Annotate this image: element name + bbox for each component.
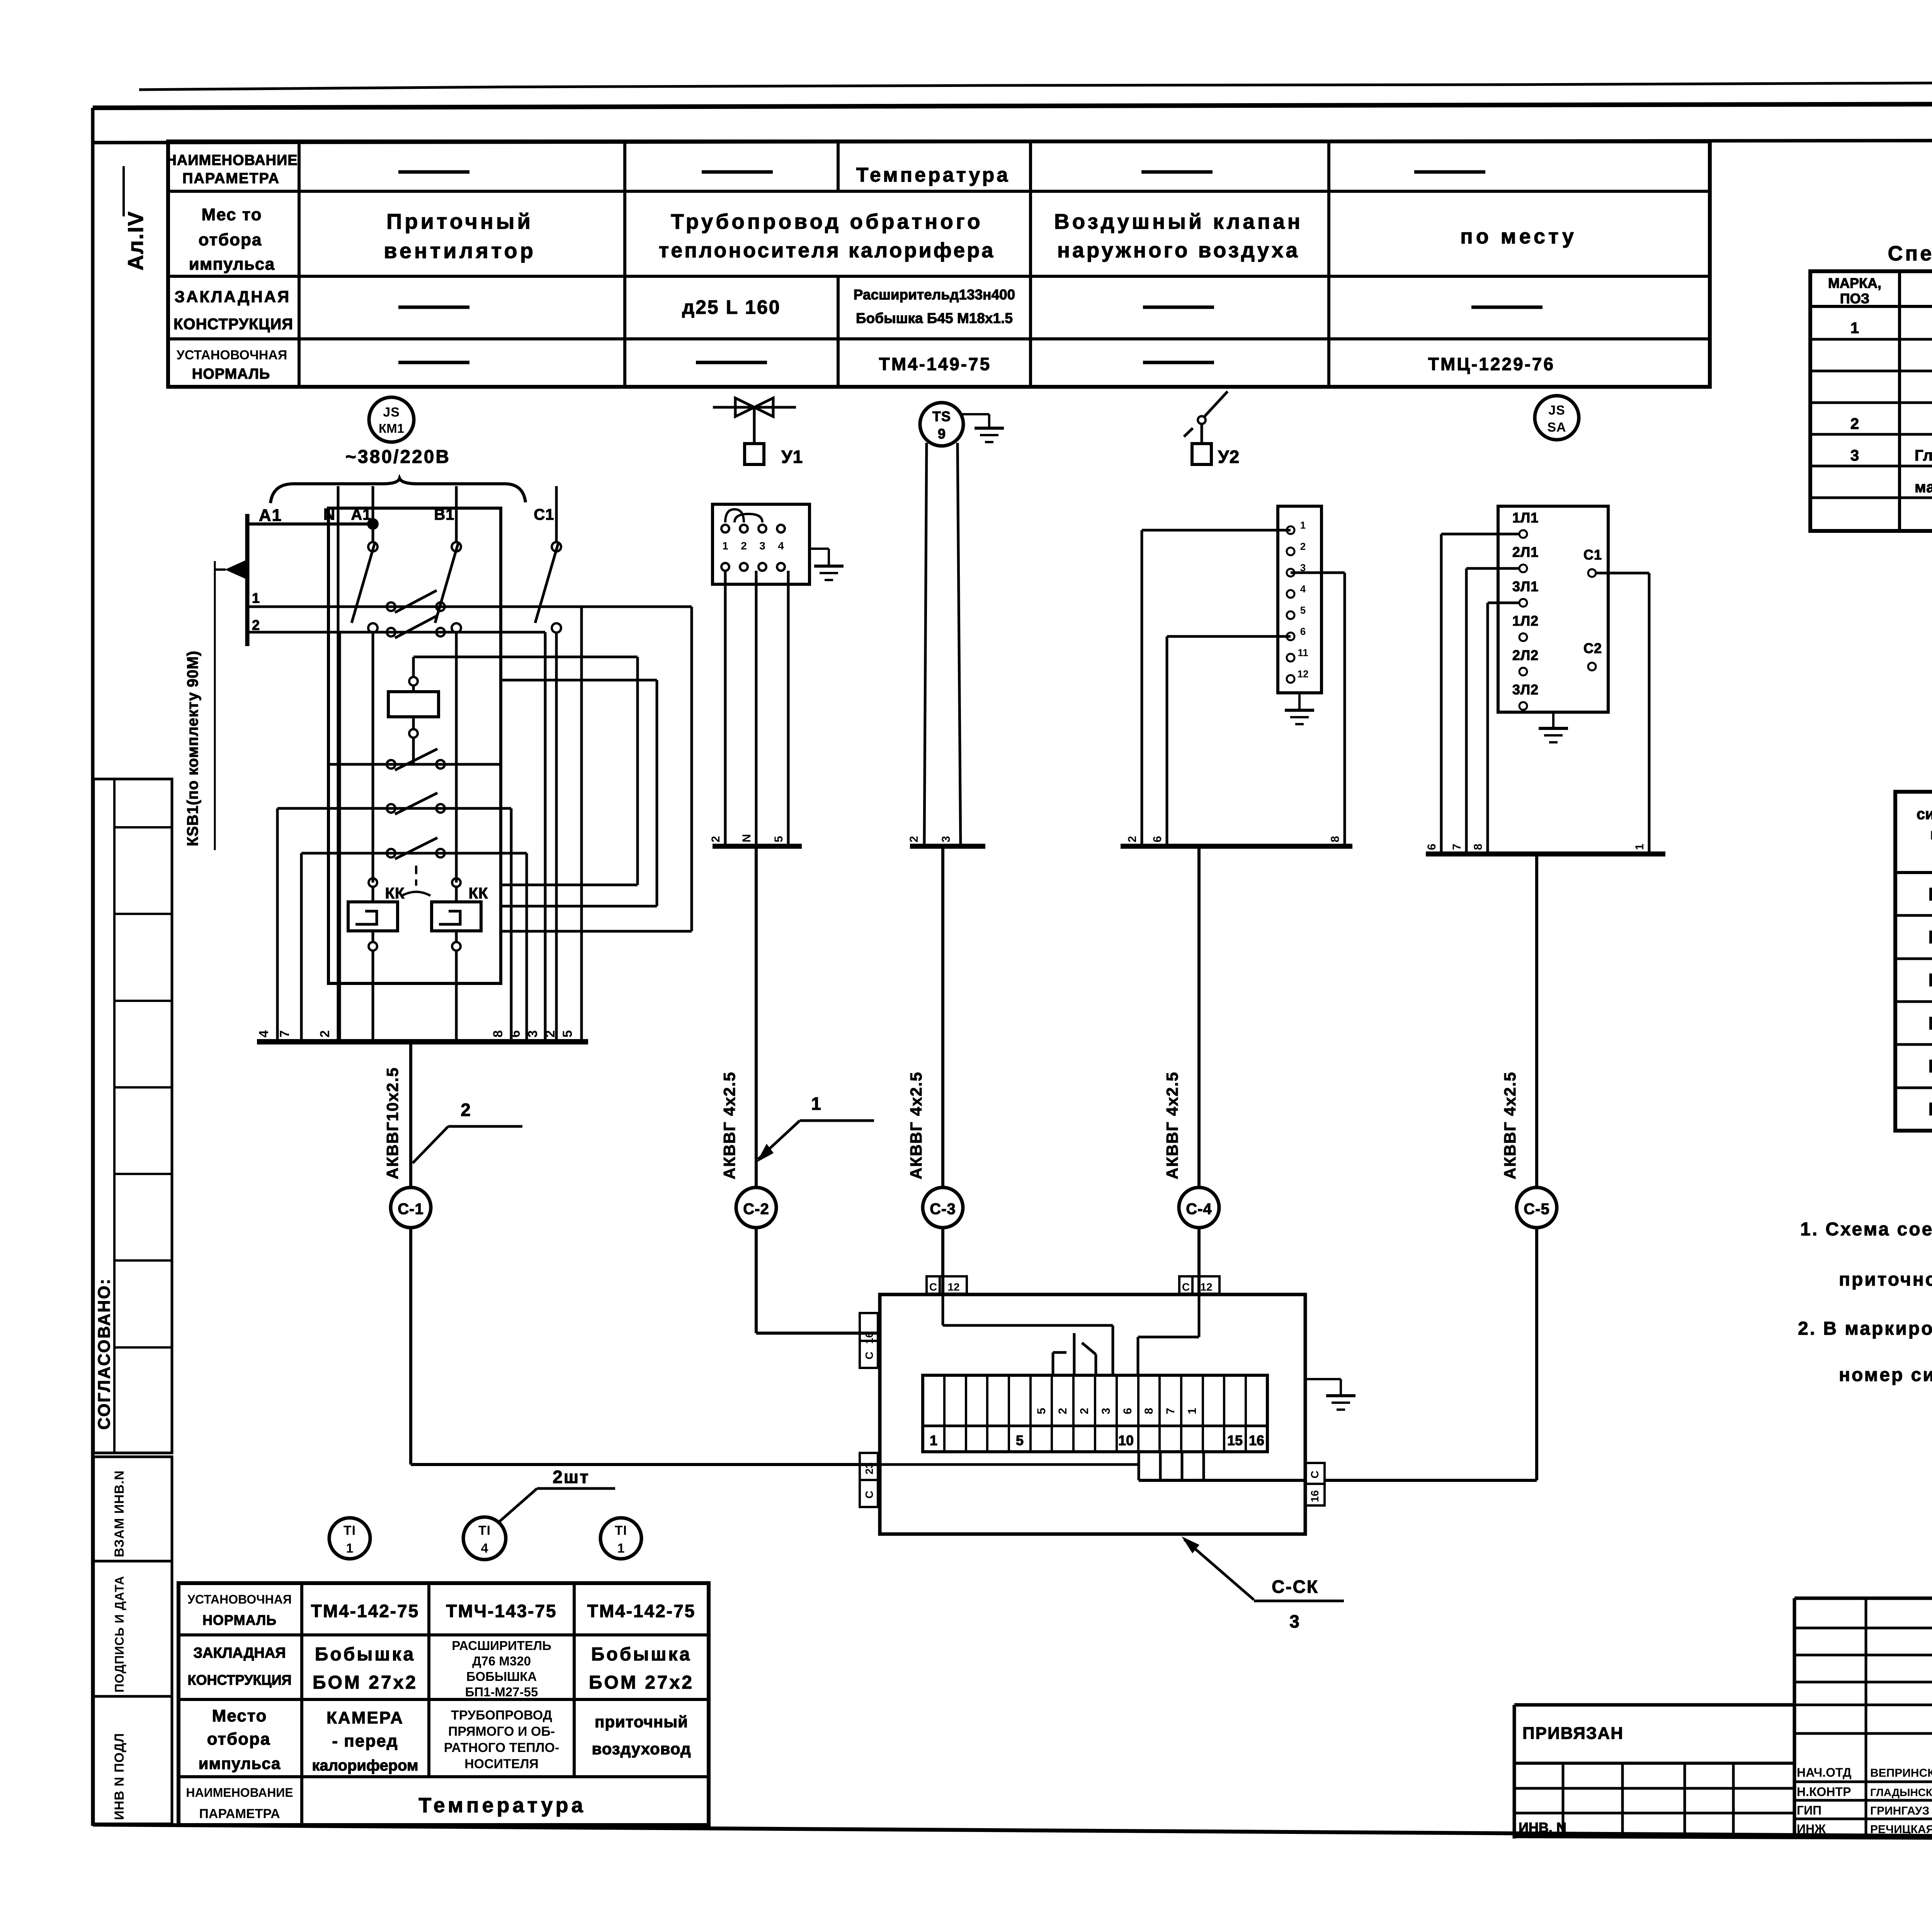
svg-text:ТМ4-142-75: ТМ4-142-75: [311, 1601, 420, 1621]
svg-text:11: 11: [1298, 647, 1308, 658]
device circle KM1: [369, 397, 414, 442]
cable label AKVVG 4x2.5 branch2: [720, 1072, 738, 1179]
svg-text:8: 8: [1329, 836, 1342, 842]
svg-text:1: 1: [930, 1432, 937, 1448]
svg-text:С: С: [863, 1352, 875, 1359]
starter enclosure box: [328, 508, 501, 983]
svg-text:АКВВГ 4х2.5: АКВВГ 4х2.5: [720, 1072, 738, 1179]
svg-text:5: 5: [1035, 1408, 1048, 1414]
svg-text:А1: А1: [259, 506, 282, 525]
phase C1 wire and main contact: [534, 486, 561, 1042]
svg-text:2: 2: [1126, 836, 1139, 842]
svg-text:номер системы согласно табл: номер системы согласно табл 2: [1839, 1365, 1932, 1385]
svg-text:КК: КК: [469, 885, 488, 902]
svg-text:отбора: отбора: [207, 1730, 271, 1749]
svg-text:отбора: отбора: [199, 230, 262, 249]
svg-text:систе-: систе-: [1917, 806, 1932, 823]
svg-text:2: 2: [908, 836, 920, 842]
cable circle C-3: [923, 846, 963, 1228]
svg-text:НАЧ.ОТД: НАЧ.ОТД: [1797, 1766, 1852, 1779]
svg-text:А1: А1: [351, 506, 371, 523]
wire N: [323, 486, 338, 1042]
svg-text:НАИМЕНОВАНИЕ: НАИМЕНОВАНИЕ: [186, 1786, 293, 1800]
svg-text:ТI: ТI: [344, 1523, 356, 1538]
right tag C16: [1305, 1463, 1325, 1505]
svg-text:3: 3: [759, 540, 765, 552]
svg-text:КМ1: КМ1: [379, 421, 404, 435]
svg-text:12: 12: [1200, 1281, 1212, 1293]
svg-text:ИНЖ: ИНЖ: [1797, 1822, 1826, 1836]
svg-text:ТI: ТI: [478, 1523, 491, 1538]
svg-text:4: 4: [1300, 583, 1306, 595]
svg-text:7: 7: [1164, 1408, 1177, 1414]
svg-text:23: 23: [863, 1462, 875, 1474]
svg-text:8: 8: [1472, 844, 1485, 850]
auxiliary contact row a: [328, 749, 501, 770]
ground of connection box: [1305, 1379, 1355, 1410]
svg-text:ТМЧ-143-75: ТМЧ-143-75: [446, 1601, 557, 1621]
svg-text:16: 16: [863, 1332, 875, 1344]
svg-text:С: С: [1182, 1281, 1190, 1293]
svg-text:РАСШИРИТЕЛЬ: РАСШИРИТЕЛЬ: [452, 1638, 551, 1653]
svg-text:Расширительд133н400: Расширительд133н400: [854, 287, 1015, 303]
phase B1 wire and main contact: [434, 486, 461, 883]
cable label AKVVG 4x2.5 branch5: [1501, 1072, 1519, 1179]
svg-text:2: 2: [252, 617, 260, 633]
svg-text:6: 6: [1425, 844, 1438, 850]
svg-text:В1: В1: [434, 506, 454, 523]
svg-text:БОМ 27х2: БОМ 27х2: [313, 1672, 418, 1693]
svg-text:5: 5: [772, 836, 785, 842]
svg-text:НАИМЕНОВАНИЕ: НАИМЕНОВАНИЕ: [166, 152, 298, 168]
svg-text:ВЗАМ ИНВ.N: ВЗАМ ИНВ.N: [112, 1470, 127, 1557]
svg-text:ГРИНГАУЗ: ГРИНГАУЗ: [1870, 1805, 1929, 1817]
svg-text:2: 2: [1850, 415, 1859, 432]
left tag C16: [860, 1313, 878, 1368]
svg-text:1Л2: 1Л2: [1512, 613, 1539, 629]
svg-text:АКВВГ 4х2.5: АКВВГ 4х2.5: [1501, 1072, 1519, 1179]
svg-text:5: 5: [560, 1030, 575, 1038]
svg-text:2: 2: [1078, 1408, 1091, 1414]
svg-text:С-5: С-5: [1524, 1201, 1549, 1218]
wires Y2 to bus: [1121, 530, 1352, 846]
svg-text:Спецификация элементов систе: Спецификация элементов систем П3-П8: [1888, 242, 1932, 265]
svg-text:3: 3: [940, 836, 952, 842]
bus of branch 1: [257, 1039, 588, 1044]
wire C-3 to box: [941, 1228, 944, 1294]
svg-text:3Л2: 3Л2: [1512, 682, 1539, 697]
wire C-1 to box: [411, 1228, 880, 1465]
svg-text:ТРУБОПРОВОД: ТРУБОПРОВОД: [451, 1708, 552, 1723]
svg-text:8: 8: [491, 1030, 505, 1038]
svg-text:1: 1: [252, 590, 260, 606]
svg-text:ГИП: ГИП: [1797, 1803, 1821, 1817]
label KSB1: [184, 561, 215, 850]
svg-text:N: N: [740, 834, 753, 842]
scan edge artifact line: [139, 81, 1932, 90]
wire C-2 to box: [756, 1228, 880, 1333]
svg-text:1: 1: [1633, 844, 1646, 850]
svg-text:2: 2: [461, 1100, 471, 1120]
svg-text:2шт: 2шт: [553, 1467, 589, 1487]
connection box C-CK: [880, 1294, 1305, 1534]
svg-text:воздуховод: воздуховод: [592, 1740, 691, 1758]
svg-text:1: 1: [1300, 519, 1306, 531]
svg-text:1: 1: [1850, 320, 1859, 337]
svg-text:Ал.IV: Ал.IV: [123, 211, 148, 270]
svg-text:5: 5: [1300, 604, 1306, 616]
svg-text:3Л1: 3Л1: [1512, 578, 1539, 594]
svg-text:КSВ1(по комплекту 90М): КSВ1(по комплекту 90М): [184, 650, 201, 846]
svg-text:8: 8: [1143, 1408, 1155, 1414]
sensor capsule wires: [908, 443, 985, 846]
svg-text:1Л1: 1Л1: [1512, 510, 1539, 526]
sheet label Al.IV: [123, 166, 148, 270]
svg-text:УСТАНОВОЧНАЯ: УСТАНОВОЧНАЯ: [177, 348, 287, 362]
svg-text:1: 1: [722, 540, 728, 552]
svg-text:Трубопровод обратного: Трубопровод обратного: [671, 209, 983, 233]
svg-text:6: 6: [1121, 1408, 1134, 1414]
thermal element KK left: [348, 878, 405, 1042]
terminal numbers above bus 1: [257, 1030, 575, 1038]
auxiliary contact row c: [301, 838, 527, 1042]
table 2 cable lengths: [1895, 724, 1932, 1131]
ground of Y1: [810, 549, 844, 580]
svg-text:У2: У2: [1218, 447, 1240, 467]
svg-text:КОНСТРУКЦИЯ: КОНСТРУКЦИЯ: [187, 1672, 291, 1688]
cable circle C-5: [1517, 854, 1557, 1228]
instrument circle TI-1 a: [329, 1518, 370, 1559]
svg-text:ТМЦ-1229-76: ТМЦ-1229-76: [1428, 354, 1555, 374]
top parameter table: [166, 141, 1710, 387]
svg-text:РАТНОГО ТЕПЛО-: РАТНОГО ТЕПЛО-: [444, 1740, 560, 1755]
svg-text:Приточный: Приточный: [386, 209, 533, 233]
svg-text:НОСИТЕЛЯ: НОСИТЕЛЯ: [464, 1757, 539, 1771]
svg-text:- перед: - перед: [332, 1732, 398, 1750]
cable circle C-2: [736, 846, 776, 1228]
leader 1: [757, 1094, 874, 1162]
lever symbol Y2: [1184, 391, 1240, 467]
internal wires of connection box: [880, 1294, 1305, 1480]
svg-text:2: 2: [543, 1030, 558, 1038]
svg-text:ТI: ТI: [615, 1523, 627, 1538]
thermal element KK right: [432, 878, 488, 1042]
wires Y1 to bus: [709, 571, 802, 846]
notes text: [1798, 1219, 1932, 1385]
svg-text:16: 16: [1249, 1432, 1264, 1448]
wires SA to bus: [1425, 534, 1665, 854]
svg-text:д25 L 160: д25 L 160: [682, 296, 781, 318]
svg-text:П5: П5: [1929, 970, 1932, 990]
device circle SA: [1535, 396, 1579, 440]
svg-text:7: 7: [1451, 844, 1463, 850]
top tag C12 left: [927, 1276, 967, 1294]
leader 2sht: [499, 1467, 615, 1522]
svg-text:5: 5: [1016, 1432, 1024, 1448]
limit switch box Y2: [1278, 506, 1321, 693]
svg-text:ЗАКЛАДНАЯ: ЗАКЛАДНАЯ: [175, 287, 291, 306]
svg-text:6: 6: [1151, 836, 1164, 842]
svg-text:Бобышка Б45 М18х1.5: Бобышка Б45 М18х1.5: [856, 310, 1013, 326]
svg-text:3: 3: [1850, 447, 1859, 464]
svg-text:калорифером: калорифером: [312, 1757, 418, 1774]
cable circle C-4: [1179, 846, 1219, 1228]
svg-text:2: 2: [1056, 1408, 1069, 1414]
svg-text:по месту: по месту: [1460, 225, 1577, 248]
svg-text:С1: С1: [534, 506, 554, 523]
svg-text:ТS: ТS: [932, 408, 951, 424]
control wire 1: [247, 590, 582, 1042]
table 1 specification: [1810, 206, 1932, 531]
svg-text:П8: П8: [1929, 1099, 1932, 1119]
svg-text:1: 1: [1186, 1408, 1199, 1414]
cable label AKVVG 4x2.5 branch3: [907, 1072, 925, 1179]
label C-CK 3: [1182, 1536, 1344, 1631]
svg-text:SА: SА: [1547, 420, 1566, 435]
svg-text:С-2: С-2: [743, 1201, 769, 1218]
svg-text:ВЕПРИНСКИЙ: ВЕПРИНСКИЙ: [1870, 1766, 1932, 1779]
svg-text:2. В маркировке кабелей в: 2. В маркировке кабелей вместо индекса „…: [1798, 1318, 1932, 1339]
ground of Y2: [1285, 693, 1314, 724]
svg-text:ПОЗ: ПОЗ: [1840, 291, 1869, 306]
svg-text:СОГЛАСОВАНО:: СОГЛАСОВАНО:: [95, 1278, 114, 1430]
control wire 2: [247, 616, 545, 1042]
svg-text:1. Схема соединений внешних: 1. Схема соединений внешних проводок сос…: [1800, 1219, 1932, 1240]
svg-text:С1: С1: [1583, 547, 1602, 563]
svg-text:2Л2: 2Л2: [1512, 647, 1539, 663]
svg-text:АКВВГ10х2.5: АКВВГ10х2.5: [383, 1067, 401, 1179]
svg-text:Воздушный клапан: Воздушный клапан: [1054, 209, 1303, 233]
svg-text:С-4: С-4: [1186, 1201, 1212, 1218]
svg-text:приточный: приточный: [595, 1713, 688, 1731]
svg-text:2Л1: 2Л1: [1512, 544, 1539, 560]
svg-text:БОМ 27х2: БОМ 27х2: [589, 1672, 694, 1693]
svg-text:Д76 М320: Д76 М320: [472, 1654, 531, 1668]
svg-text:ТМ4-142-75: ТМ4-142-75: [587, 1601, 696, 1621]
instrument circle TI-1 b: [600, 1518, 641, 1559]
svg-text:РЕЧИЦКАЯ: РЕЧИЦКАЯ: [1870, 1823, 1932, 1836]
svg-text:ИНВ N ПОДЛ: ИНВ N ПОДЛ: [112, 1733, 127, 1820]
svg-text:1: 1: [346, 1541, 354, 1556]
svg-text:Н.КОНТР: Н.КОНТР: [1797, 1785, 1851, 1799]
svg-text:3: 3: [1289, 1611, 1299, 1631]
svg-text:Главмонтажавто-: Главмонтажавто-: [1915, 447, 1932, 464]
svg-text:С: С: [929, 1281, 937, 1293]
svg-text:С-1: С-1: [398, 1201, 423, 1218]
svg-text:С: С: [1309, 1471, 1321, 1478]
right side loop wires: [501, 607, 692, 931]
label 380/220V: [345, 447, 451, 467]
svg-text:ма: ма: [1930, 826, 1932, 843]
svg-text:JS: JS: [1548, 403, 1565, 418]
cable label AKVVG 4x2.5 branch4: [1163, 1072, 1181, 1179]
svg-text:ПАРАМЕТРА: ПАРАМЕТРА: [182, 170, 280, 187]
svg-text:С: С: [863, 1491, 875, 1499]
svg-text:3: 3: [526, 1030, 540, 1038]
svg-text:2: 2: [1300, 541, 1306, 552]
ground of TS9: [962, 414, 1004, 442]
svg-text:1: 1: [617, 1541, 625, 1556]
ground of SA: [1539, 712, 1568, 742]
wire C-4 to box: [1197, 1228, 1201, 1294]
svg-text:12: 12: [1298, 668, 1309, 680]
valve symbol Y1: [713, 398, 803, 467]
svg-text:ПРИВЯЗАН: ПРИВЯЗАН: [1522, 1724, 1624, 1743]
svg-text:теплоносителя калорифера: теплоносителя калорифера: [659, 239, 995, 262]
title block: [1514, 1598, 1932, 1840]
svg-text:НОРМАЛЬ: НОРМАЛЬ: [202, 1612, 277, 1628]
svg-text:импульса: импульса: [199, 1754, 281, 1772]
auxiliary contact row b: [277, 793, 511, 1042]
svg-text:1: 1: [811, 1094, 821, 1114]
left margin label boxes: [94, 1457, 172, 1824]
supply brace: [270, 478, 526, 503]
svg-text:УСТАНОВОЧНАЯ: УСТАНОВОЧНАЯ: [187, 1592, 292, 1606]
svg-text:ТМ4-149-75: ТМ4-149-75: [879, 354, 992, 374]
svg-text:Место: Место: [212, 1706, 267, 1725]
svg-text:ИНВ. N: ИНВ. N: [1519, 1820, 1566, 1835]
svg-text:П7: П7: [1929, 1056, 1932, 1076]
svg-text:~380/220В: ~380/220В: [345, 447, 451, 467]
svg-text:вентилятор: вентилятор: [384, 238, 536, 263]
svg-text:КАМЕРА: КАМЕРА: [327, 1708, 404, 1727]
svg-text:БП1-М27-55: БП1-М27-55: [465, 1685, 538, 1699]
wire C-5 to box: [1325, 1228, 1537, 1480]
svg-text:С2: С2: [1583, 640, 1602, 656]
left margin approval stack: [94, 779, 172, 1453]
top tag C12 right: [1179, 1276, 1219, 1294]
instrument circle TI-4: [463, 1517, 506, 1560]
svg-text:9: 9: [938, 426, 946, 442]
sensor circle TS9: [920, 403, 963, 446]
svg-text:матика: матика: [1915, 479, 1932, 496]
svg-text:3: 3: [1100, 1408, 1112, 1414]
svg-text:ГЛАДЫНСКАЯ: ГЛАДЫНСКАЯ: [1870, 1786, 1932, 1798]
cable circle C-1: [391, 1042, 431, 1228]
svg-text:ПРЯМОГО И ОБ-: ПРЯМОГО И ОБ-: [448, 1724, 555, 1739]
svg-text:У1: У1: [781, 447, 803, 467]
terminal strip: [923, 1375, 1267, 1452]
pins of Y2 box: [1287, 519, 1308, 683]
bottom parameter table: [179, 1583, 709, 1825]
svg-text:П3: П3: [1929, 884, 1932, 904]
svg-text:10: 10: [1118, 1432, 1134, 1448]
svg-text:Мес то: Мес то: [201, 205, 262, 224]
svg-text:6: 6: [1300, 626, 1306, 637]
svg-text:6: 6: [508, 1030, 523, 1038]
svg-text:НОРМАЛЬ: НОРМАЛЬ: [192, 366, 270, 382]
svg-text:4: 4: [778, 540, 784, 552]
svg-text:7: 7: [277, 1030, 292, 1038]
svg-text:АКВВГ 4х2.5: АКВВГ 4х2.5: [907, 1072, 925, 1179]
svg-text:4: 4: [481, 1541, 488, 1556]
phase A1 wire and main contact: [351, 486, 378, 883]
svg-text:АКВВГ 4х2.5: АКВВГ 4х2.5: [1163, 1072, 1181, 1179]
svg-text:КОНСТРУКЦИЯ: КОНСТРУКЦИЯ: [173, 316, 293, 333]
connector box of Y1: [713, 504, 810, 584]
svg-text:Температура: Температура: [856, 164, 1010, 186]
svg-text:МАРКА,: МАРКА,: [1828, 275, 1881, 291]
switch box SA: [1498, 506, 1608, 712]
svg-text:ПАРАМЕТРА: ПАРАМЕТРА: [199, 1806, 280, 1821]
svg-text:Температура: Температура: [418, 1794, 586, 1817]
svg-text:16: 16: [1309, 1490, 1321, 1502]
svg-text:приточной системы и примени: приточной системы и применима для систем…: [1839, 1269, 1932, 1290]
svg-text:КК: КК: [385, 885, 405, 902]
contactor coil: [388, 657, 501, 764]
svg-text:2: 2: [741, 540, 747, 552]
pins of SA box: [1512, 510, 1602, 710]
svg-text:П6: П6: [1929, 1013, 1932, 1033]
svg-text:12: 12: [947, 1281, 959, 1293]
svg-text:2: 2: [709, 836, 722, 842]
svg-text:2: 2: [318, 1030, 332, 1038]
svg-text:4: 4: [257, 1030, 271, 1038]
cable label AKVVG10x2.5: [383, 1067, 401, 1179]
leader 2: [413, 1100, 522, 1163]
svg-text:наружного воздуха: наружного воздуха: [1057, 238, 1300, 262]
svg-text:ЗАКЛАДНАЯ: ЗАКЛАДНАЯ: [193, 1645, 286, 1661]
svg-text:JS: JS: [383, 405, 400, 420]
svg-text:ПОДПИСЬ И ДАТА: ПОДПИСЬ И ДАТА: [112, 1576, 126, 1692]
svg-text:С-3: С-3: [930, 1201, 956, 1218]
left tag C23: [860, 1453, 878, 1507]
svg-text:импульса: импульса: [189, 255, 275, 274]
svg-text:Бобышка: Бобышка: [315, 1644, 415, 1665]
svg-text:П4: П4: [1929, 927, 1932, 947]
svg-text:15: 15: [1227, 1432, 1243, 1448]
svg-text:БОБЫШКА: БОБЫШКА: [466, 1669, 537, 1684]
node A1 tap: [215, 506, 379, 646]
svg-text:С-СК: С-СК: [1272, 1577, 1319, 1597]
svg-text:Бобышка: Бобышка: [591, 1644, 692, 1665]
